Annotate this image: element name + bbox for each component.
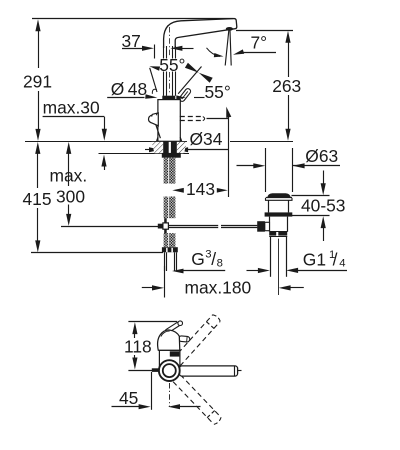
svg-text:55°: 55° bbox=[159, 55, 185, 75]
svg-text:G: G bbox=[191, 249, 205, 269]
svg-text:Ø34: Ø34 bbox=[190, 129, 223, 149]
svg-text:7°: 7° bbox=[251, 33, 268, 53]
svg-text:Ø63: Ø63 bbox=[305, 146, 338, 166]
svg-text:55°: 55° bbox=[205, 82, 231, 102]
svg-text:/: / bbox=[211, 249, 216, 269]
svg-text:max.30: max.30 bbox=[43, 98, 100, 118]
svg-text:G1: G1 bbox=[303, 249, 326, 269]
svg-text:415: 415 bbox=[23, 189, 52, 209]
svg-text:Ø 48: Ø 48 bbox=[111, 79, 147, 99]
svg-text:118: 118 bbox=[124, 337, 152, 357]
svg-text:143: 143 bbox=[186, 179, 215, 199]
svg-text:40-53: 40-53 bbox=[301, 195, 345, 215]
svg-text:37: 37 bbox=[122, 31, 141, 51]
svg-text:8: 8 bbox=[217, 258, 223, 270]
svg-text:4: 4 bbox=[339, 258, 345, 270]
svg-text:291: 291 bbox=[23, 71, 52, 91]
svg-text:/: / bbox=[333, 249, 338, 269]
svg-text:45: 45 bbox=[119, 388, 138, 408]
svg-text:263: 263 bbox=[272, 76, 301, 96]
svg-text:300: 300 bbox=[56, 187, 85, 207]
svg-text:max.180: max.180 bbox=[185, 278, 252, 298]
